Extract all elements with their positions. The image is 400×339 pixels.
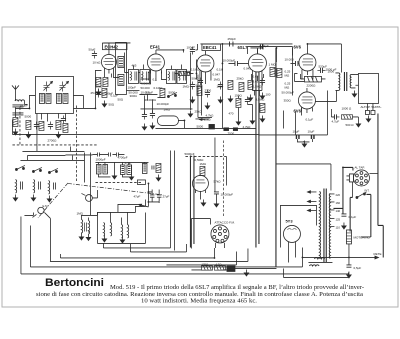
tube 6SL7 <box>248 49 266 95</box>
capacitor C28 27pF <box>157 189 162 202</box>
ground C32 <box>250 117 254 124</box>
svg-text:2,5MΩ: 2,5MΩ <box>252 84 262 88</box>
svg-text:2200Ω: 2200Ω <box>306 83 316 87</box>
capacitor C18 <box>290 61 299 66</box>
wire grid vertical <box>221 95 223 128</box>
tube 6V6 first <box>299 46 316 74</box>
ground R21 <box>236 118 240 125</box>
svg-text:5000: 5000 <box>24 114 31 118</box>
volume caps <box>84 222 86 231</box>
ground C31 <box>205 102 209 109</box>
wires 6V6 cathode <box>276 48 325 116</box>
resistor R14 <box>200 166 205 175</box>
trimmer capacitor CT2 <box>59 81 68 91</box>
svg-text:10.000pF: 10.000pF <box>220 192 233 196</box>
speaker box <box>358 73 378 103</box>
capacitor C8 <box>96 89 101 97</box>
wire IF2 to EF41 <box>124 52 149 72</box>
svg-text:4,7μF: 4,7μF <box>331 119 339 123</box>
svg-text:1MΩ: 1MΩ <box>163 107 170 111</box>
svg-text:47μF: 47μF <box>124 161 131 165</box>
wire 6V6 second plate <box>315 90 336 101</box>
ground AVC <box>188 110 192 117</box>
dial lamp loop <box>157 116 178 126</box>
box coil D <box>127 224 128 238</box>
svg-text:4,7Ω: 4,7Ω <box>215 262 221 266</box>
resistor R1 <box>13 117 18 126</box>
svg-text:47pF: 47pF <box>133 194 140 198</box>
electrolytic C22 <box>296 135 299 139</box>
resistor R6 <box>102 88 107 97</box>
ground EM b <box>214 200 218 207</box>
svg-text:0.045: 0.045 <box>243 66 251 70</box>
svg-text:100: 100 <box>265 92 270 96</box>
svg-text:0,1μF: 0,1μF <box>348 215 356 219</box>
wire y90 <box>126 89 139 91</box>
capacitor C4 <box>20 181 22 189</box>
svg-text:125: 125 <box>335 217 340 221</box>
ground mid1 <box>142 123 146 130</box>
wire phase to 6V6b <box>291 48 293 95</box>
wire tube top <box>103 43 130 52</box>
wire AVC drop <box>189 52 191 108</box>
resistor R13 <box>341 115 352 119</box>
ground C26 <box>347 271 351 278</box>
capacitor C2 <box>34 121 39 129</box>
svg-text:0.047: 0.047 <box>212 72 220 76</box>
resistor R3 <box>39 121 44 130</box>
wire R8 <box>174 59 196 79</box>
wire ECH42 pins <box>104 71 119 77</box>
T2 tap 160 <box>330 201 341 205</box>
svg-text:MΩ: MΩ <box>284 73 289 77</box>
wire can1 left links <box>37 95 83 151</box>
right tall wire <box>378 113 383 257</box>
svg-text:25.000: 25.000 <box>90 91 100 95</box>
svg-text:INT.: INT. <box>364 188 369 192</box>
svg-text:1000 pF: 1000 pF <box>325 67 336 71</box>
svg-text:50Ω: 50Ω <box>117 97 123 101</box>
capacitor C27 47pF <box>150 189 155 202</box>
svg-text:0,01μF: 0,01μF <box>259 44 269 48</box>
osc coil L9 <box>118 56 124 67</box>
svg-text:25kΩ: 25kΩ <box>236 76 244 80</box>
FM box <box>191 218 210 248</box>
wire 6SL7 pins <box>251 74 263 81</box>
socket FM <box>211 225 229 243</box>
ground R9 <box>228 95 232 102</box>
svg-text:50kΩ: 50kΩ <box>195 83 203 87</box>
wire volume top <box>81 212 97 220</box>
svg-text:E.M.: E.M. <box>42 204 48 208</box>
tube 6V6 second <box>298 88 315 113</box>
svg-text:160: 160 <box>335 201 340 205</box>
ground C17 <box>260 92 264 99</box>
capacitor C6 <box>53 182 55 189</box>
svg-text:50.000pF: 50.000pF <box>281 90 294 94</box>
dashed box right edge <box>75 105 77 182</box>
IF can 2 coil B <box>140 69 150 83</box>
resistor R19 <box>197 86 202 95</box>
bottom lines right <box>283 268 348 277</box>
ground mid2 <box>150 122 154 129</box>
volume coil La <box>81 219 82 233</box>
wire socket down <box>215 243 224 248</box>
svg-text:300Ω: 300Ω <box>129 94 137 98</box>
T2 left arrow c <box>307 209 316 211</box>
capacitor C15 <box>228 61 245 66</box>
box coil B <box>110 222 111 236</box>
svg-text:0,5MΩ: 0,5MΩ <box>194 158 204 162</box>
svg-text:0,1MΩ: 0,1MΩ <box>190 67 200 71</box>
svg-text:6SL7: 6SL7 <box>237 45 248 50</box>
svg-text:ALTOP. SUPPL.: ALTOP. SUPPL. <box>360 105 382 109</box>
svg-text:Mod. 519 - Il primo triodo del: Mod. 519 - Il primo triodo della 6SL7 am… <box>110 284 364 291</box>
capacitor C33 <box>152 165 154 169</box>
capacitor C12 <box>150 110 155 118</box>
coil L8 <box>48 180 49 194</box>
wire EF41 pins down <box>150 70 166 84</box>
svg-text:0,5MΩ: 0,5MΩ <box>255 97 265 101</box>
svg-text:100pF: 100pF <box>186 45 195 49</box>
IF coil L4 <box>56 93 61 103</box>
antenna coil L1 <box>15 100 25 101</box>
capacitor C29 <box>190 81 195 89</box>
filament winding b <box>309 265 319 266</box>
capacitor C32 <box>245 96 250 104</box>
svg-text:1000 Ω: 1000 Ω <box>341 106 352 110</box>
ground C25 <box>342 222 346 229</box>
IF can 3 coil A <box>166 69 176 83</box>
T2 bottom <box>308 261 332 263</box>
plug AL TAP <box>346 174 353 182</box>
svg-text:100pF: 100pF <box>127 85 136 89</box>
capacitor C24 <box>214 192 219 194</box>
svg-text:25kΩ: 25kΩ <box>194 109 202 113</box>
wire socket down <box>351 182 353 198</box>
svg-text:10μF: 10μF <box>292 129 299 133</box>
capacitor C16 <box>218 81 223 89</box>
svg-text:50.000: 50.000 <box>128 90 138 94</box>
wire bus right <box>191 268 276 270</box>
bus bottom 7 <box>166 251 236 265</box>
svg-text:4000Ω: 4000Ω <box>140 77 150 81</box>
IF coil L3 <box>46 93 51 103</box>
T2 left arrow a <box>307 191 316 193</box>
svg-text:5000pF: 5000pF <box>184 152 194 156</box>
5Y3 box <box>280 205 316 247</box>
switch S1c <box>48 168 58 173</box>
dashed FM feed <box>222 140 224 217</box>
capacitor C7 <box>92 50 97 58</box>
volume pot <box>81 193 92 201</box>
bus bottom 2 <box>30 225 302 267</box>
ground pad B <box>129 173 133 180</box>
left drop wires <box>65 151 92 215</box>
switch S1a <box>15 165 25 170</box>
capacitor C10 250pF <box>229 41 233 46</box>
padding caps row <box>92 152 124 156</box>
svg-text:50.000: 50.000 <box>140 86 150 90</box>
switch S2 <box>167 92 177 97</box>
svg-text:140: 140 <box>335 209 340 213</box>
svg-text:20.000pF: 20.000pF <box>100 91 113 95</box>
wires pad cluster <box>95 162 148 177</box>
coil L7 <box>33 179 34 193</box>
filament winding <box>314 258 324 259</box>
IF can 2 coil A <box>128 69 138 83</box>
wire 5Y3 down <box>288 246 295 263</box>
switch S3 <box>138 204 148 207</box>
connector J1 <box>365 110 375 114</box>
svg-text:465: 465 <box>131 63 136 67</box>
svg-text:6V6: 6V6 <box>293 108 301 113</box>
resistor R4 <box>56 120 61 129</box>
capacitor C17 <box>260 77 265 85</box>
svg-text:1MΩ: 1MΩ <box>213 77 220 81</box>
wire node to IF can <box>15 95 35 108</box>
ground R24 <box>260 115 264 122</box>
wires below IF can 1 <box>41 113 65 121</box>
long vertical pair B <box>190 155 194 247</box>
svg-text:10 kΩ: 10 kΩ <box>92 60 101 64</box>
box coil C <box>121 224 122 238</box>
band switch step wire 2 <box>27 155 65 160</box>
pickup EM <box>32 204 48 218</box>
IF coil L5 <box>63 93 68 103</box>
MW box <box>97 199 145 243</box>
svg-text:EBC41: EBC41 <box>203 45 217 50</box>
bus line A <box>155 127 256 129</box>
svg-text:4700pF: 4700pF <box>117 155 127 159</box>
svg-text:Bertoncini: Bertoncini <box>45 277 104 289</box>
bus bottom 4 <box>103 247 170 249</box>
svg-text:10.000pF: 10.000pF <box>156 102 169 106</box>
capacitor C11 <box>142 111 147 119</box>
bus bottom 1 <box>21 216 349 274</box>
svg-text:27pF: 27pF <box>162 194 169 198</box>
T2 tap 140 <box>330 209 341 213</box>
switch S1b <box>32 167 42 172</box>
T2 tap 125 <box>330 217 341 221</box>
tube EM4 <box>192 174 208 193</box>
svg-text:220: 220 <box>335 193 340 197</box>
ground EM a <box>201 199 205 206</box>
ground C29 <box>190 96 194 103</box>
wire seg y118 <box>195 118 209 120</box>
wire tap to cap <box>333 167 353 213</box>
svg-text:RETE: RETE <box>373 252 381 256</box>
wire can1 to mixer grid <box>73 70 101 108</box>
linkage dashdot right <box>68 183 164 195</box>
oscillator box <box>115 42 126 94</box>
capacitor C30 <box>61 115 66 123</box>
resistor R8 <box>178 71 189 75</box>
T2 tap 110 <box>330 225 340 229</box>
svg-text:EF41: EF41 <box>150 44 161 49</box>
wire motor <box>349 237 371 258</box>
tube ECH42 <box>101 51 116 73</box>
svg-text:100pF: 100pF <box>19 103 28 107</box>
svg-text:170Ω: 170Ω <box>201 262 208 266</box>
osc padder coil B <box>103 164 108 174</box>
coil L6 <box>15 179 16 193</box>
wire 6V6b drops <box>283 110 295 134</box>
svg-text:7500: 7500 <box>227 131 234 135</box>
svg-text:500 Ω: 500 Ω <box>345 123 354 127</box>
ground T1 <box>352 90 356 97</box>
capacitor C20 <box>317 68 325 73</box>
wire pickup <box>24 212 50 261</box>
ground C16 <box>218 96 222 103</box>
IF can 3 coil B <box>177 69 187 83</box>
svg-text:0.1MΩ: 0.1MΩ <box>153 86 163 90</box>
wire 6SL7 plate up <box>250 48 262 54</box>
power transformer T2 core <box>324 188 326 262</box>
bus bottom 5 <box>60 243 214 258</box>
wire EM bus <box>214 137 216 150</box>
dashed top of box area <box>95 181 141 183</box>
svg-text:1MΩ: 1MΩ <box>76 211 83 215</box>
long vertical pair left <box>256 72 259 248</box>
motor MOTORINO <box>346 230 351 244</box>
wire 6V6 pins down <box>302 73 313 79</box>
osc padder coil D <box>127 165 132 175</box>
ground antenna <box>13 128 17 135</box>
wire 6V6 plate to transformer <box>307 44 341 72</box>
band switch step wire 3 <box>20 155 72 160</box>
electrolytic C13 <box>209 124 215 129</box>
wire right bus vertical <box>326 90 328 135</box>
capacitor C25 <box>341 214 346 216</box>
svg-text:1MΩ: 1MΩ <box>182 84 189 88</box>
resistor R9 <box>228 80 233 89</box>
svg-text:2700: 2700 <box>204 88 211 92</box>
ground box B <box>120 236 124 243</box>
capacitor C9 <box>190 46 195 54</box>
T2 tap 220 <box>330 193 341 197</box>
svg-text:ECH42: ECH42 <box>104 44 118 49</box>
resistor R2 <box>26 120 31 129</box>
antenna <box>12 85 19 100</box>
svg-text:50pF: 50pF <box>88 47 95 51</box>
capacitor C21 <box>331 114 339 119</box>
IF coil L2 <box>39 93 44 103</box>
T2 left arrow b <box>307 200 316 202</box>
svg-text:5000: 5000 <box>196 124 203 128</box>
ground L8 <box>47 195 51 202</box>
svg-text:0,1: 0,1 <box>152 77 157 81</box>
svg-text:350Ω: 350Ω <box>283 98 291 102</box>
osc coil L10 <box>118 74 124 85</box>
resistor R12 <box>277 68 282 77</box>
osc padder coil A <box>96 164 101 174</box>
wire EM verticals <box>200 150 226 200</box>
wire net left <box>300 74 304 79</box>
wire socket top <box>369 172 378 174</box>
resistor R17 <box>96 77 101 86</box>
top wire 250pF <box>200 44 292 51</box>
svg-text:MOTORINO: MOTORINO <box>353 235 370 239</box>
svg-text:4,7kΩ: 4,7kΩ <box>242 125 251 129</box>
ground Lb <box>86 234 90 241</box>
ground R20 <box>248 94 252 101</box>
ground pad A <box>112 172 116 179</box>
svg-text:250pF: 250pF <box>227 37 236 41</box>
output transformer T1 <box>335 72 355 91</box>
wire 6SL7 grid <box>222 51 248 95</box>
svg-text:1MΩ: 1MΩ <box>199 162 206 166</box>
resistor R22 bus <box>223 127 229 131</box>
svg-text:0,1μF: 0,1μF <box>305 117 313 121</box>
volume coil Lb <box>88 220 89 234</box>
resistor R5 <box>63 123 68 132</box>
wire EBC pins <box>200 74 211 84</box>
wire pot to grid <box>92 190 97 198</box>
small box end <box>137 180 145 185</box>
capacitor C5 <box>38 181 40 189</box>
svg-text:10 watt indistorti. Media freq: 10 watt indistorti. Media frequenza 465 … <box>141 298 258 305</box>
junction node <box>148 183 159 206</box>
ground R17 <box>96 88 100 95</box>
capacitor C19 <box>260 44 263 49</box>
ground J1 <box>366 115 370 122</box>
AVC wire <box>140 109 192 110</box>
ground La <box>79 233 83 240</box>
svg-text:10.000pF: 10.000pF <box>222 58 235 62</box>
switch box wires <box>350 194 371 237</box>
vertical x144 <box>139 94 152 114</box>
osc coil E <box>142 163 147 173</box>
ground C22 <box>302 140 306 147</box>
resistor R10 <box>239 82 244 91</box>
svg-text:15kΩ: 15kΩ <box>203 117 211 121</box>
long vertical pair A <box>170 150 174 250</box>
bus bottom 3 <box>50 248 248 261</box>
wire antenna to node <box>15 99 27 118</box>
right enclosure vertical <box>275 48 277 267</box>
resistor R11 <box>270 67 275 76</box>
svg-text:50Ω: 50Ω <box>108 102 114 106</box>
svg-text:1000: 1000 <box>216 84 223 88</box>
capacitor C3 <box>48 121 53 129</box>
svg-text:ATTACCO F.M.: ATTACCO F.M. <box>214 220 235 224</box>
resistor R18 <box>103 77 108 86</box>
svg-text:20.000Ω: 20.000Ω <box>144 98 156 102</box>
svg-text:6V6: 6V6 <box>293 44 301 49</box>
resistor R16 bus <box>214 266 225 270</box>
wires box tops <box>110 204 138 224</box>
wire left bus <box>11 119 13 134</box>
linkage dashdot left <box>38 183 68 218</box>
resistor R7 <box>160 88 165 97</box>
capacitor C26 <box>346 257 351 267</box>
fuse bus <box>227 266 235 272</box>
EBC41 lower box <box>198 71 212 117</box>
ground R6 <box>102 100 106 107</box>
tube EF41 <box>147 50 164 75</box>
wire speaker connector <box>367 103 373 110</box>
wire IF3 <box>171 64 190 72</box>
right enclosure top <box>276 164 331 191</box>
resistor R21 <box>236 98 241 107</box>
bus bottom 6 <box>130 244 186 252</box>
ground R13 <box>356 120 360 127</box>
svg-text:1000pF: 1000pF <box>95 157 105 161</box>
resistor network box <box>304 76 321 82</box>
wire EBC to 6V6 <box>247 46 292 55</box>
ground R4 <box>56 131 60 138</box>
